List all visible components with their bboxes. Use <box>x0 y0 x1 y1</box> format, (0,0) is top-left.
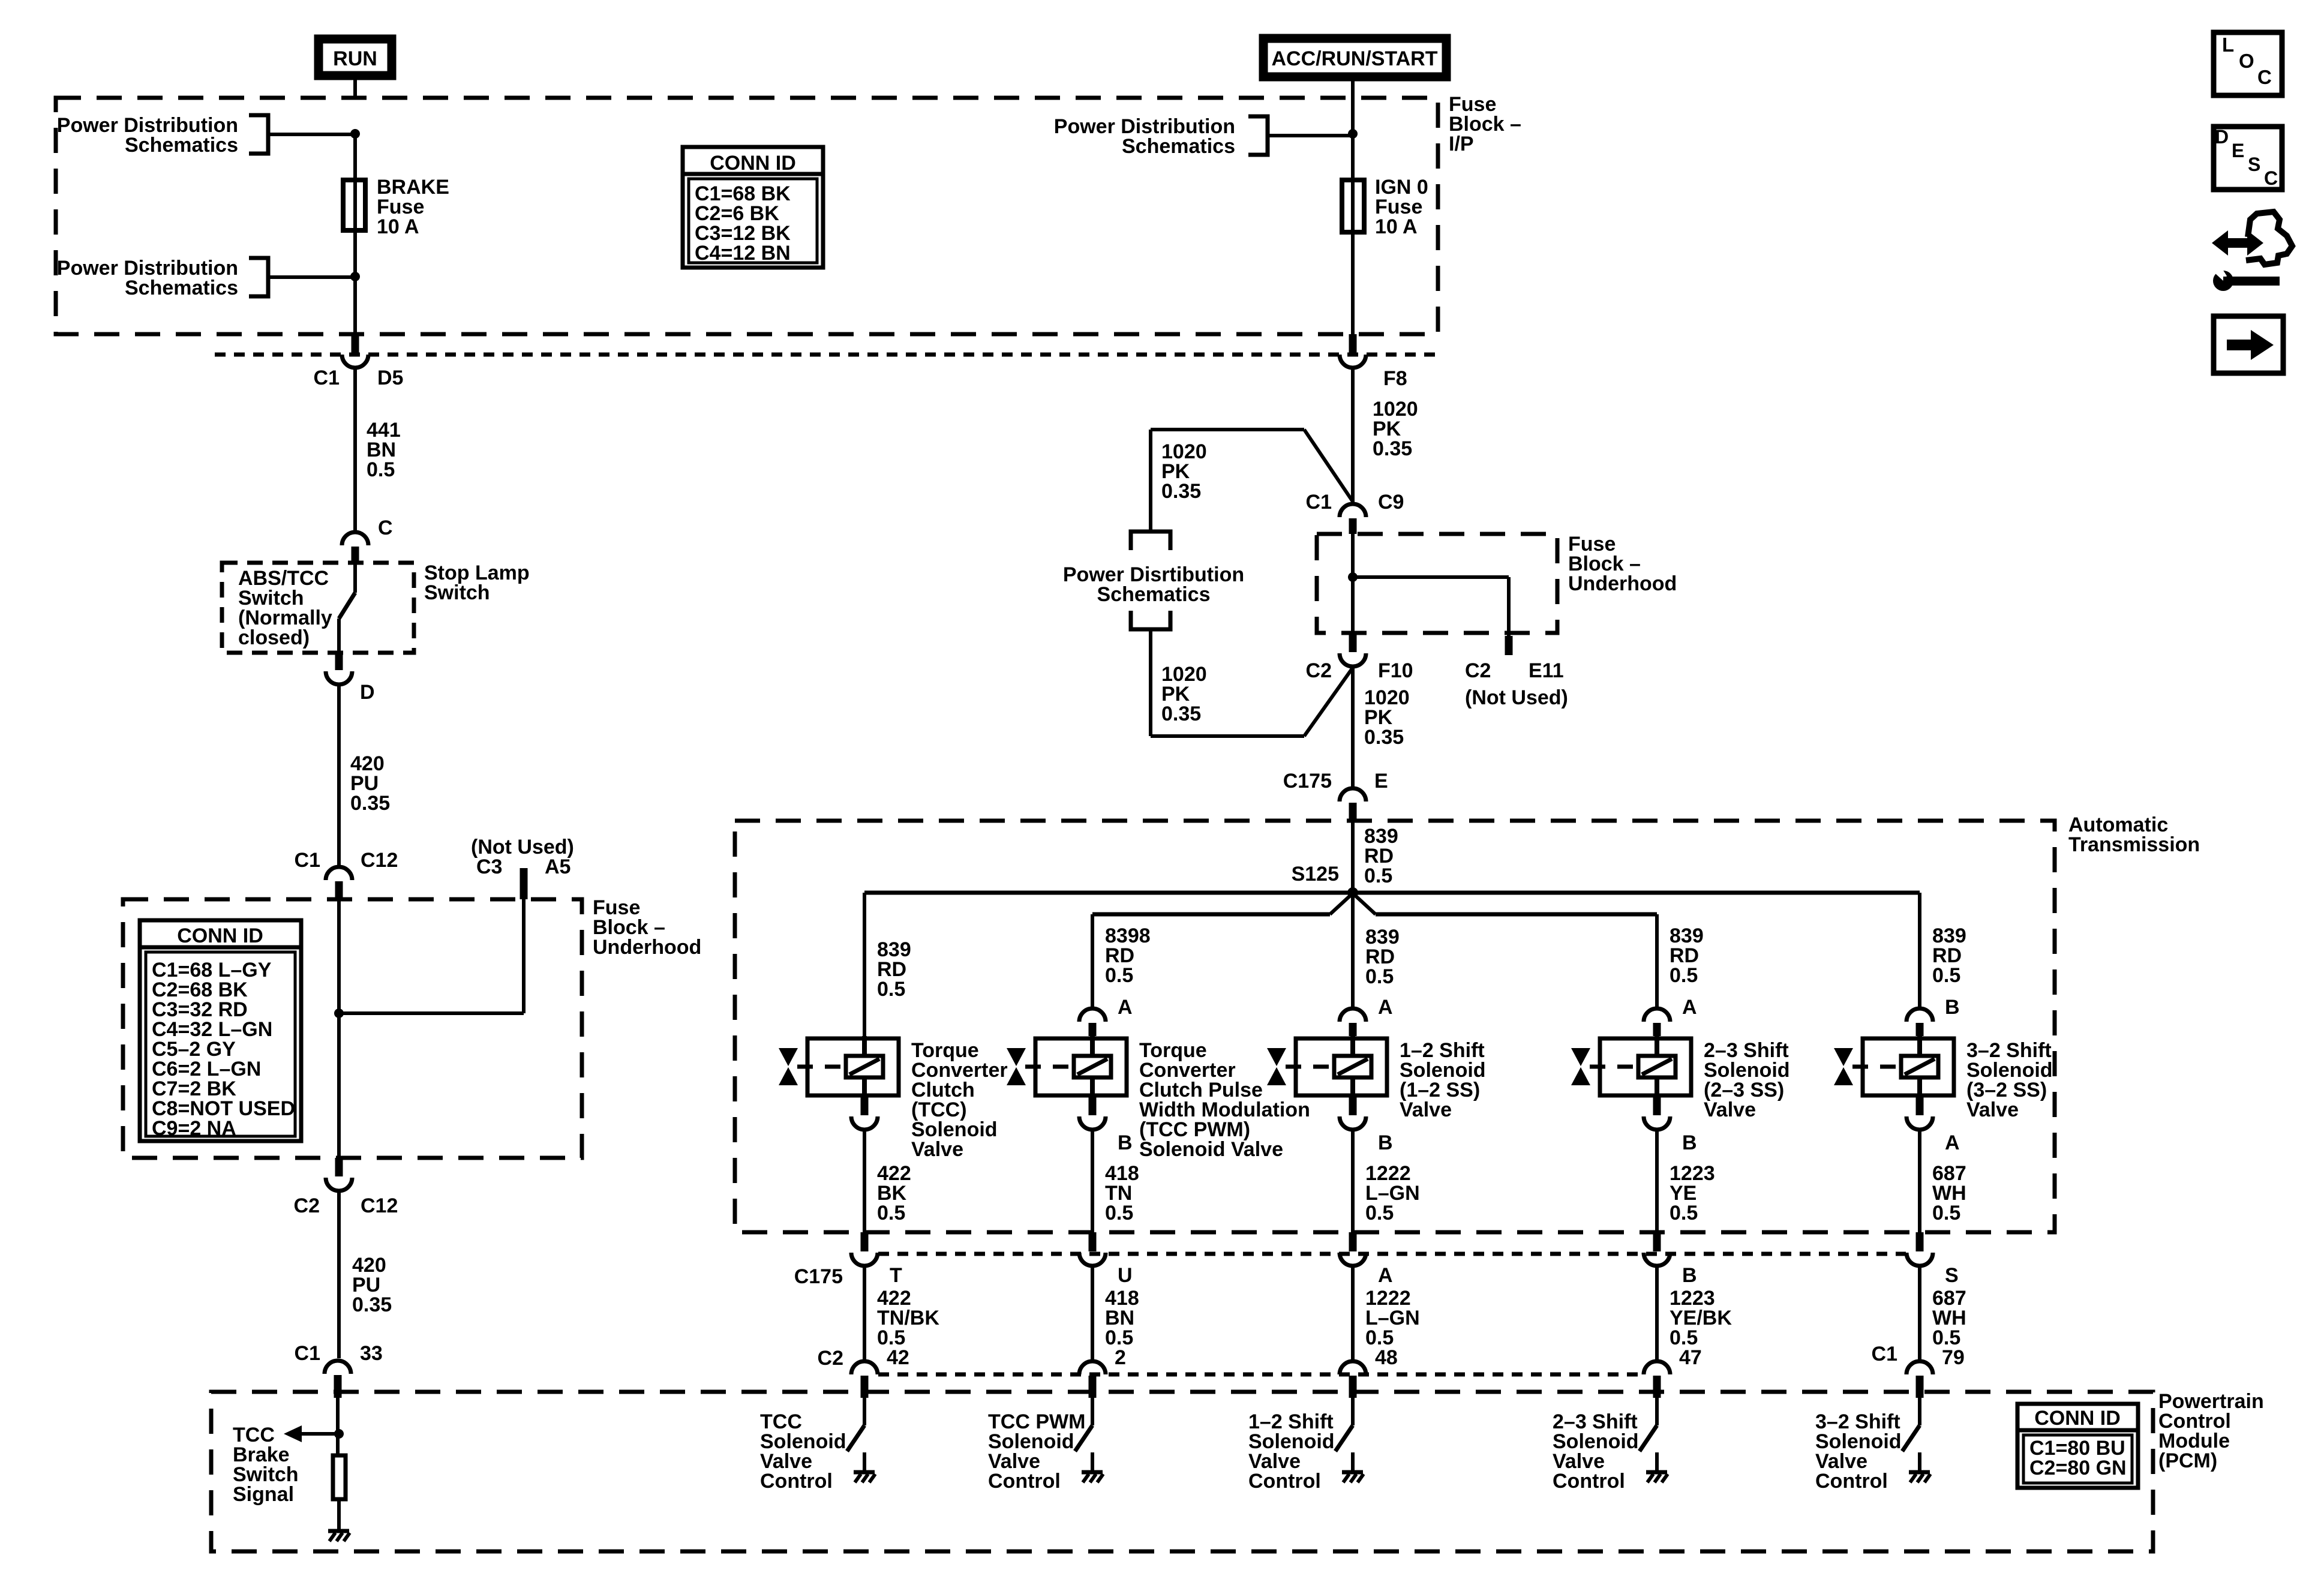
solenoid bottom connector cup (3-2 shift solenoid branch) <box>1906 1116 1933 1130</box>
connector C1/C9 stub <box>1349 518 1357 534</box>
connector C175 pin E cup <box>1340 788 1366 801</box>
label PCM pin 42 (TCC solenoid branch) <box>887 1346 909 1369</box>
fuse block underhood dashed box (left) <box>123 899 582 1158</box>
solenoid valve symbol TCC PWM <box>1035 1036 1127 1097</box>
svg-text:C175: C175 <box>794 1265 843 1288</box>
wire C9 to F10 inside block <box>1351 534 1355 633</box>
label wire 1020 PK 0.35 (loop upper) <box>1161 440 1207 503</box>
svg-text:Switch: Switch <box>424 581 490 604</box>
solenoid bottom connector cup (TCC solenoid branch) <box>851 1116 878 1130</box>
label Stop Lamp Switch <box>424 562 530 604</box>
label C1 (left of D5) <box>314 367 340 389</box>
solenoid bottom connector cup (1-2 shift solenoid branch) <box>1340 1116 1366 1130</box>
svg-text:10 A: 10 A <box>1375 215 1418 238</box>
label wire 418 BN 0.5 to PCM (TCC PWM solenoid branch) <box>1105 1287 1139 1349</box>
label Torque Converter Clutch (TCC) Solenoid Valve <box>911 1039 1008 1161</box>
svg-text:A: A <box>1682 996 1697 1019</box>
connector C cup <box>342 532 368 545</box>
solenoid top connector stub (2-3 shift solenoid branch) <box>1653 1023 1661 1036</box>
svg-text:C1: C1 <box>1872 1343 1897 1365</box>
svg-text:0.35: 0.35 <box>352 1293 392 1316</box>
svg-text:0.5: 0.5 <box>367 458 395 481</box>
PCM connector cup (TCC PWM solenoid branch) <box>1079 1361 1106 1374</box>
wire ACC box to fuse block I/P <box>1351 81 1355 98</box>
svg-text:CONN ID: CONN ID <box>2034 1407 2121 1430</box>
svg-text:B: B <box>1378 1131 1393 1154</box>
label pin C12 (exit) <box>361 1194 398 1217</box>
label 2-3 Shift Solenoid (2-3 SS) Valve <box>1704 1039 1790 1121</box>
wire bus to connector (TCC PWM solenoid branch) <box>1091 914 1094 1007</box>
label pin B (3-2 shift solenoid branch) <box>1945 996 1960 1019</box>
svg-text:0.5: 0.5 <box>877 1202 905 1224</box>
connector C2 pin F8 cup <box>1340 355 1366 368</box>
C175 row cup (TCC solenoid branch) <box>851 1253 878 1266</box>
label Fuse Block - Underhood (right) <box>1568 533 1677 595</box>
svg-text:Control: Control <box>988 1470 1061 1493</box>
svg-text:47: 47 <box>1679 1346 1702 1369</box>
connector C1/C12 cup <box>326 867 352 880</box>
label wire 839 RD 0.5 (1-2 shift solenoid branch) <box>1365 926 1400 988</box>
label pin A (1-2 shift solenoid branch) <box>1378 996 1393 1019</box>
svg-text:0.5: 0.5 <box>1670 1202 1698 1224</box>
label Powertrain Control Module (PCM) <box>2158 1390 2264 1472</box>
svg-text:10 A: 10 A <box>377 215 419 238</box>
svg-text:C: C <box>2264 167 2278 189</box>
label pin C <box>378 517 393 539</box>
label wire 1020 PK 0.35 (loop lower) <box>1161 663 1207 725</box>
svg-text:T: T <box>890 1264 902 1287</box>
wire C175 to PCM (1-2 shift solenoid branch) <box>1351 1267 1355 1360</box>
svg-text:C2: C2 <box>1306 659 1332 682</box>
solenoid driver switch (3-2 shift solenoid valve control driver) <box>1902 1398 1920 1471</box>
wire bus to connector (3-2 shift solenoid branch) <box>1918 893 1921 1007</box>
connector C2 pin F8 stub <box>1349 334 1357 353</box>
solenoid bottom connector cup (TCC PWM solenoid branch) <box>1079 1116 1106 1130</box>
connector C2 pin F10 cup <box>1340 653 1366 667</box>
svg-text:closed): closed) <box>238 626 310 649</box>
svg-text:C: C <box>2257 66 2272 88</box>
label pin A (2-3 shift solenoid branch) <box>1682 996 1697 1019</box>
label pin E <box>1374 770 1388 792</box>
svg-text:I/P: I/P <box>1449 133 1474 155</box>
wire 441 BN <box>353 369 357 531</box>
off-page symbol Power Disrtibution Schematics <box>1063 532 1244 629</box>
wire BRAKE fuse to box edge <box>353 233 357 334</box>
svg-text:CONN ID: CONN ID <box>177 924 263 947</box>
label pin C12 (entry) <box>361 849 398 872</box>
solenoid top connector stub (TCC PWM solenoid branch) <box>1089 1023 1097 1036</box>
hydraulic valve bowtie TCC <box>779 1048 844 1085</box>
label pin U (TCC PWM solenoid branch) <box>1118 1264 1133 1287</box>
label wire 422 TN/BK 0.5 to PCM (TCC solenoid branch) <box>877 1287 939 1349</box>
svg-text:A: A <box>1378 996 1393 1019</box>
svg-text:Solenoid Valve: Solenoid Valve <box>1139 1138 1283 1161</box>
svg-text:C9=2 NA: C9=2 NA <box>152 1117 236 1140</box>
wire loop left upper segment <box>1149 430 1152 532</box>
bus wire upper (S125 to branches 1,5) <box>864 891 1920 895</box>
label Power Distribution Schematics (upper left) <box>57 114 238 157</box>
svg-text:F10: F10 <box>1378 659 1413 682</box>
svg-text:0.5: 0.5 <box>1365 1202 1394 1224</box>
svg-text:E: E <box>2232 140 2244 161</box>
svg-text:A5: A5 <box>545 855 571 878</box>
svg-text:C1: C1 <box>314 367 340 389</box>
label Power Distribution Schematics (right) <box>1054 115 1235 158</box>
C175 row cup (1-2 shift solenoid branch) <box>1340 1253 1366 1266</box>
svg-text:S: S <box>1945 1264 1959 1287</box>
solenoid bottom connector cup (2-3 shift solenoid branch) <box>1644 1116 1670 1130</box>
label PCM pin 2 (TCC PWM solenoid branch) <box>1115 1346 1126 1369</box>
svg-text:B: B <box>1945 996 1960 1019</box>
hydraulic valve bowtie TCC PWM <box>1007 1048 1072 1085</box>
svg-text:Valve: Valve <box>1966 1098 2019 1121</box>
PCM connector cup (2-3 shift solenoid branch) <box>1644 1361 1670 1374</box>
wire element to ground <box>337 1501 341 1530</box>
CONN ID table (PCM) <box>2017 1404 2138 1488</box>
label pin S (3-2 shift solenoid branch) <box>1945 1264 1959 1287</box>
label wire 687 WH 0.5 to PCM (3-2 shift solenoid branch) <box>1932 1287 1966 1349</box>
ground (TCC brake signal) <box>328 1531 350 1541</box>
label wire 420 PU 0.35 (lower) <box>352 1254 392 1316</box>
svg-text:Underhood: Underhood <box>1568 572 1677 595</box>
label pin D <box>360 681 375 704</box>
label wire 839 RD 0.5 (TCC solenoid branch) <box>877 938 911 1001</box>
svg-text:ACC/RUN/START: ACC/RUN/START <box>1271 47 1437 70</box>
solenoid valve symbol TCC <box>807 1036 899 1097</box>
PCM dashed box <box>211 1392 2153 1551</box>
connector C1 pin D5 stub <box>352 334 359 353</box>
solenoid bottom connector stub (TCC PWM solenoid branch) <box>1089 1097 1097 1115</box>
PCM internal element (resistor box) <box>333 1455 346 1499</box>
svg-text:C1: C1 <box>295 1342 320 1365</box>
label C1 (left of C12) <box>295 849 320 872</box>
svg-text:79: 79 <box>1942 1346 1965 1369</box>
PCM connector cup (TCC solenoid branch) <box>851 1361 878 1374</box>
label TCC driver (TCC solenoid valve control driver) <box>760 1410 846 1493</box>
label BRAKE Fuse 10 A <box>377 176 449 238</box>
svg-text:Schematics: Schematics <box>125 134 238 157</box>
svg-text:C12: C12 <box>361 1194 398 1217</box>
connector C175 pin E stub <box>1349 803 1357 821</box>
svg-text:33: 33 <box>360 1342 383 1365</box>
svg-text:Schematics: Schematics <box>1097 583 1211 606</box>
label TCC PWM driver (TCC PWM solenoid valve control driver) <box>988 1410 1085 1493</box>
chassis ground (TCC solenoid valve control driver) <box>854 1472 875 1482</box>
chassis ground (2-3 shift solenoid valve control driver) <box>1646 1472 1668 1482</box>
solenoid bottom connector stub (2-3 shift solenoid branch) <box>1653 1097 1661 1115</box>
chassis ground (1-2 shift solenoid valve control driver) <box>1342 1472 1364 1482</box>
off-page bracket (right) <box>1248 116 1268 155</box>
node RUN (ignition switch feed) <box>319 39 392 76</box>
label C2 E11 (Not Used) <box>1465 659 1568 709</box>
label TCC Brake Switch Signal <box>233 1424 299 1506</box>
solenoid bottom connector stub (3-2 shift solenoid branch) <box>1916 1097 1924 1115</box>
svg-text:0.5: 0.5 <box>1105 1202 1133 1224</box>
svg-text:C9: C9 <box>1378 491 1404 514</box>
wire 420 PU (lower) <box>337 1192 341 1358</box>
junction dot in right underhood block <box>1348 572 1358 582</box>
label Fuse Block - I/P <box>1449 93 1521 155</box>
label 2–3 Shift driver (2-3 shift solenoid valve control driver) <box>1553 1410 1639 1493</box>
svg-text:D: D <box>360 681 375 704</box>
label Fuse Block - Underhood (left) <box>593 896 701 959</box>
splice S125 dot <box>1347 887 1358 898</box>
svg-text:C2: C2 <box>818 1347 843 1370</box>
connector C1 pin 33 cup <box>325 1361 351 1374</box>
label pin F10 <box>1378 659 1413 682</box>
off-page bracket (upper left) <box>249 115 268 154</box>
label C1 (3-2 branch bottom) <box>1872 1343 1897 1365</box>
fuse IGN 0 10A <box>1342 178 1364 235</box>
svg-text:S: S <box>2248 154 2260 175</box>
hydraulic valve bowtie 1-2 shift <box>1267 1048 1332 1085</box>
C175 row stub (TCC solenoid branch) <box>861 1232 869 1251</box>
ABS/TCC switch dashed box <box>222 563 414 653</box>
svg-text:B: B <box>1682 1264 1697 1287</box>
label wire 1222 L–GN 0.5 to PCM (1-2 shift solenoid branch) <box>1365 1287 1420 1349</box>
C175 row cup (3-2 shift solenoid branch) <box>1906 1253 1933 1266</box>
label splice S125 <box>1292 863 1339 885</box>
svg-text:L: L <box>2222 34 2234 56</box>
svg-text:0.35: 0.35 <box>1364 726 1404 749</box>
svg-text:(PCM): (PCM) <box>2158 1449 2217 1472</box>
wire solenoid to C175 (TCC solenoid branch) <box>863 1131 866 1232</box>
svg-text:0.35: 0.35 <box>1161 480 1201 503</box>
wire bus to connector (2-3 shift solenoid branch) <box>1655 914 1659 1007</box>
wire loop left lower segment <box>1149 629 1152 736</box>
PCM connector stub (TCC PWM solenoid branch) <box>1089 1376 1097 1398</box>
solenoid top connector cup pin A (1-2 shift solenoid branch) <box>1340 1008 1366 1022</box>
label ABS/TCC Switch (Normally closed) <box>238 567 332 649</box>
label pin C9 <box>1378 491 1404 514</box>
svg-text:CONN ID: CONN ID <box>710 152 796 175</box>
wire C175 to PCM (3-2 shift solenoid branch) <box>1918 1267 1921 1360</box>
label PCM pin 47 (2-3 shift solenoid branch) <box>1679 1346 1702 1369</box>
label wire 418 TN 0.5 (TCC PWM solenoid branch) <box>1105 1162 1139 1224</box>
label wire 8398 RD 0.5 (TCC PWM solenoid branch) <box>1105 924 1151 987</box>
chassis ground (3-2 shift solenoid valve control driver) <box>1909 1472 1930 1482</box>
C175 row stub (2-3 shift solenoid branch) <box>1653 1232 1661 1251</box>
label IGN 0 Fuse 10 A <box>1375 176 1428 238</box>
label pin B bottom (TCC PWM solenoid branch) <box>1118 1131 1133 1154</box>
CONN ID table (fuse block I/P) <box>683 147 823 268</box>
C175 row stub (1-2 shift solenoid branch) <box>1349 1232 1357 1251</box>
wire branch to power distribution loop (top) <box>1151 430 1353 502</box>
junction dot TCC brake signal <box>334 1429 344 1439</box>
label Torque Converter Clutch Pulse Width Modulation (TCC PWM) Solenoid Valve <box>1139 1039 1310 1161</box>
label pin T (TCC solenoid branch) <box>890 1264 902 1287</box>
label pin B bottom (2-3 shift solenoid branch) <box>1682 1131 1697 1154</box>
wire bracket to node <box>268 133 355 136</box>
svg-text:A: A <box>1378 1264 1393 1287</box>
svg-text:B: B <box>1682 1131 1697 1154</box>
svg-text:Control: Control <box>1248 1470 1321 1493</box>
C175 row stub (3-2 shift solenoid branch) <box>1916 1232 1924 1251</box>
label pin B (2-3 shift solenoid branch) <box>1682 1264 1697 1287</box>
svg-text:D5: D5 <box>377 367 403 389</box>
junction dot on RUN feed (lower) <box>350 272 360 281</box>
hydraulic valve bowtie 2-3 shift <box>1571 1048 1637 1085</box>
label 1–2 Shift driver (1-2 shift solenoid valve control driver) <box>1248 1410 1335 1493</box>
label pin B bottom (1-2 shift solenoid branch) <box>1378 1131 1393 1154</box>
svg-text:0.5: 0.5 <box>1364 864 1392 887</box>
label wire 839 RD 0.5 (above S125) <box>1364 825 1398 887</box>
junction dot on RUN feed (upper) <box>350 129 360 139</box>
svg-text:0.35: 0.35 <box>1373 437 1412 460</box>
label wire 687 WH 0.5 (3-2 shift solenoid branch) <box>1932 1162 1966 1224</box>
svg-text:2: 2 <box>1115 1346 1126 1369</box>
solenoid bottom connector stub (TCC solenoid branch) <box>861 1097 869 1115</box>
label wire 839 RD 0.5 (2-3 shift solenoid branch) <box>1670 924 1704 987</box>
label Power Distribution Schematics (lower left) <box>57 257 238 299</box>
junction dot on IGN feed <box>1348 129 1358 139</box>
solenoid top connector cup pin B (3-2 shift solenoid branch) <box>1906 1008 1933 1022</box>
fuse block I/P dashed box <box>56 98 1438 334</box>
icon LOC box <box>2214 32 2282 95</box>
icon connector view (arrows and wrench) <box>2209 212 2292 291</box>
wire RUN box to fuse block I/P <box>353 80 357 98</box>
label PCM pin 79 (3-2 shift solenoid branch) <box>1942 1346 1965 1369</box>
wire to IGN 0 fuse <box>1351 98 1355 178</box>
fuse block underhood dashed box (right) <box>1317 534 1557 633</box>
solenoid valve symbol 3-2 shift <box>1863 1036 1954 1097</box>
wire C175 to PCM (TCC solenoid branch) <box>863 1267 866 1360</box>
PCM connector stub (TCC solenoid branch) <box>861 1376 869 1398</box>
solenoid bottom connector stub (1-2 shift solenoid branch) <box>1349 1097 1357 1115</box>
dotted connector row (fuse block I/P) <box>215 353 1438 357</box>
hydraulic valve bowtie 3-2 shift <box>1834 1048 1899 1085</box>
CONN ID table (fuse block underhood) <box>140 920 301 1141</box>
svg-text:Control: Control <box>1553 1470 1625 1493</box>
label C1 (left of C9) <box>1306 491 1332 514</box>
svg-text:Valve: Valve <box>1400 1098 1452 1121</box>
label wire 422 BK 0.5 (TCC solenoid branch) <box>877 1162 911 1224</box>
svg-text:0.5: 0.5 <box>1932 964 1960 987</box>
connector C stub <box>352 547 359 563</box>
svg-text:0.5: 0.5 <box>1105 964 1133 987</box>
connector C1 pin D5 cup <box>342 355 368 368</box>
dotted connector row PCM C2 <box>878 1373 1643 1377</box>
wire bracket to IGN node <box>1268 134 1353 137</box>
svg-text:O: O <box>2239 50 2254 72</box>
TCC brake switch signal arrow <box>284 1425 338 1442</box>
wire solenoid to C175 (1-2 shift solenoid branch) <box>1351 1131 1355 1232</box>
svg-text:C12: C12 <box>361 849 398 872</box>
solenoid top connector cup pin A (2-3 shift solenoid branch) <box>1644 1008 1670 1022</box>
label pin 33 <box>360 1342 383 1365</box>
node ACC/RUN/START (ignition feed) <box>1263 38 1446 77</box>
stop lamp switch blade <box>339 563 355 653</box>
svg-text:S125: S125 <box>1292 863 1339 885</box>
wire junction to BRAKE fuse <box>353 134 357 178</box>
svg-text:Signal: Signal <box>233 1483 294 1506</box>
svg-text:F8: F8 <box>1383 367 1407 390</box>
svg-text:Transmission: Transmission <box>2068 833 2200 856</box>
solenoid driver switch (TCC PWM solenoid valve control driver) <box>1075 1398 1092 1471</box>
solenoid valve symbol 2-3 shift <box>1600 1036 1691 1097</box>
PCM connector cup (3-2 shift solenoid branch) <box>1906 1361 1933 1374</box>
svg-text:E11: E11 <box>1529 659 1564 682</box>
wire pin 33 into PCM <box>336 1398 340 1454</box>
label pin F8 <box>1383 367 1407 390</box>
wire solenoid to C175 (3-2 shift solenoid branch) <box>1918 1131 1921 1232</box>
label wire 420 PU 0.35 (upper) <box>350 752 390 815</box>
icon DESC box <box>2214 126 2282 190</box>
label 3-2 Shift Solenoid (3-2 SS) Valve <box>1966 1039 2053 1121</box>
connector C1/C9 cup <box>1340 504 1366 517</box>
label C175 (left of E) <box>1283 770 1332 792</box>
label 3–2 Shift driver (3-2 shift solenoid valve control driver) <box>1815 1410 1902 1493</box>
wire 420 PU (upper) <box>337 686 341 866</box>
label wire 441 BN 0.5 <box>367 419 401 481</box>
wire loop bottom to F10 <box>1151 668 1353 736</box>
PCM connector stub (2-3 shift solenoid branch) <box>1653 1376 1661 1398</box>
label (Not Used) C3 A5 <box>471 836 574 878</box>
svg-text:U: U <box>1118 1264 1133 1287</box>
svg-text:RUN: RUN <box>333 47 377 70</box>
svg-text:C2: C2 <box>1465 659 1491 682</box>
C175 row stub (TCC PWM solenoid branch) <box>1089 1232 1097 1251</box>
label pin D5 <box>377 367 403 389</box>
label pin A (1-2 shift solenoid branch) <box>1378 1264 1393 1287</box>
connector D cup <box>326 671 352 685</box>
wire C175 to PCM (TCC PWM solenoid branch) <box>1091 1267 1094 1360</box>
svg-text:C3: C3 <box>476 855 502 878</box>
connector C2/C12 cup <box>326 1178 352 1191</box>
svg-text:C2: C2 <box>294 1194 320 1217</box>
junction dot in underhood block <box>334 1008 344 1018</box>
svg-text:C1: C1 <box>1306 491 1332 514</box>
svg-text:A: A <box>1945 1131 1960 1154</box>
svg-text:C2=80 GN: C2=80 GN <box>2029 1457 2127 1479</box>
svg-text:Control: Control <box>1815 1470 1888 1493</box>
wire IGN fuse to box edge <box>1351 235 1355 334</box>
dotted connector row C175 <box>878 1252 1906 1256</box>
connector C2/C12 stub <box>335 1158 343 1176</box>
svg-text:(Not Used): (Not Used) <box>1465 686 1568 709</box>
svg-text:C4=12 BN: C4=12 BN <box>695 242 791 265</box>
connector C1/C12 stub <box>335 881 343 899</box>
label wire 1020 PK 0.35 (below F10) <box>1364 686 1410 749</box>
svg-text:B: B <box>1118 1131 1133 1154</box>
wire F10 to C175 E <box>1351 668 1355 787</box>
chassis ground (TCC PWM solenoid valve control driver) <box>1082 1472 1103 1482</box>
PCM connector stub (1-2 shift solenoid branch) <box>1349 1376 1357 1398</box>
wire bus to solenoid 1 (TCC solenoid branch) <box>863 893 866 1036</box>
label C2 (left of C12 exit) <box>294 1194 320 1217</box>
svg-text:0.5: 0.5 <box>1670 964 1698 987</box>
wire junction to A5 terminal <box>339 899 524 1013</box>
solenoid top connector stub (1-2 shift solenoid branch) <box>1349 1023 1357 1036</box>
connector C1 pin 33 stub <box>334 1375 342 1398</box>
connector D stub <box>335 653 343 670</box>
svg-text:D: D <box>2215 126 2229 148</box>
wire bus to connector (1-2 shift solenoid branch) <box>1351 893 1355 1007</box>
svg-text:C175: C175 <box>1283 770 1332 792</box>
svg-text:0.35: 0.35 <box>1161 703 1201 725</box>
label pin A bottom (3-2 shift solenoid branch) <box>1945 1131 1960 1154</box>
svg-text:E: E <box>1374 770 1388 792</box>
label wire 1223 YE 0.5 (2-3 shift solenoid branch) <box>1670 1162 1715 1224</box>
label 1-2 Shift Solenoid (1-2 SS) Valve <box>1400 1039 1486 1121</box>
label wire 1020 PK 0.35 (below F8) <box>1373 398 1418 460</box>
C175 row cup (TCC PWM solenoid branch) <box>1079 1253 1106 1266</box>
wire solenoid to C175 (2-3 shift solenoid branch) <box>1655 1131 1659 1232</box>
svg-text:A: A <box>1118 996 1133 1019</box>
solenoid top connector cup pin A (TCC PWM solenoid branch) <box>1079 1008 1106 1022</box>
icon forward arrow box <box>2214 316 2283 373</box>
svg-text:0.35: 0.35 <box>350 792 390 815</box>
